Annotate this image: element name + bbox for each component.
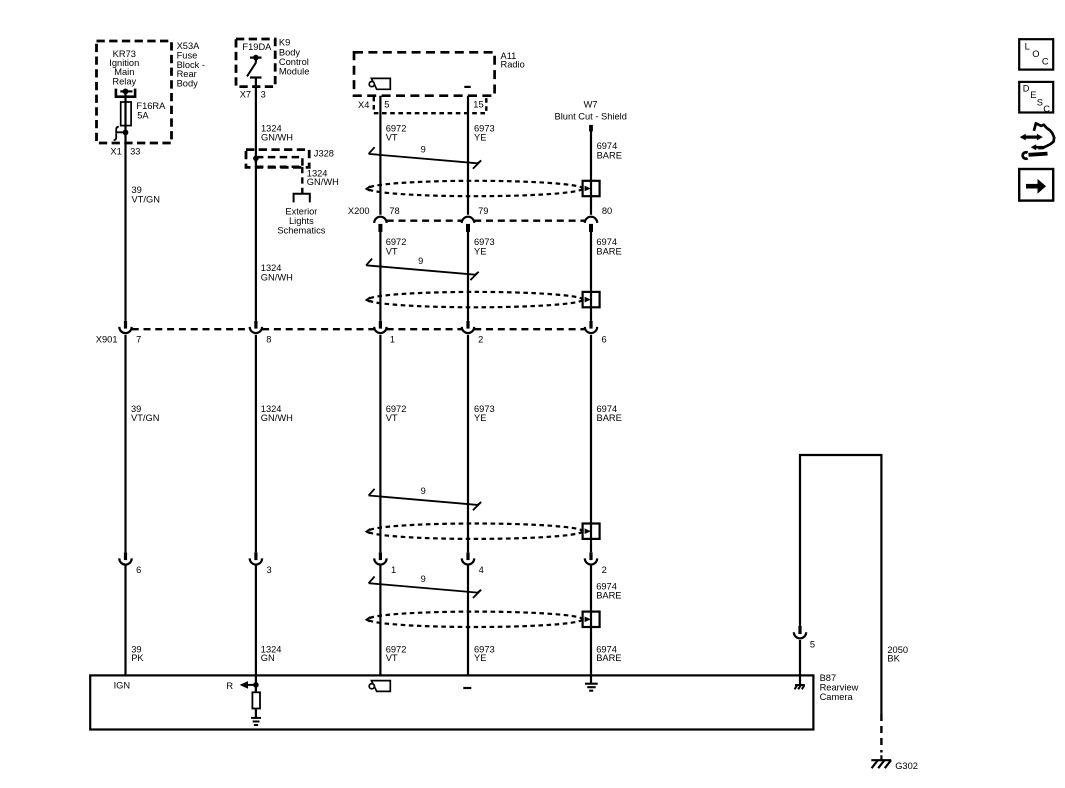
switch blade [247, 63, 256, 77]
icon DESC box [1019, 82, 1053, 113]
svg-text:BARE: BARE [597, 150, 622, 160]
svg-text:Blunt Cut - Shield: Blunt Cut - Shield [555, 111, 627, 121]
svg-text:C: C [1043, 104, 1050, 114]
shield tap box 4 [583, 612, 600, 627]
wire 39 PK (inline conn to camera) [124, 565, 126, 676]
relay contact bracket [116, 89, 135, 97]
svg-text:VT: VT [386, 413, 398, 423]
R output arrow [247, 684, 256, 686]
twisted pair mark 3 [369, 489, 482, 511]
wire 6972 (X4-5 to X200) [379, 96, 381, 215]
svg-text:YE: YE [474, 413, 486, 423]
minus terminal (in radio) [464, 86, 470, 88]
resistor (camera internal) [252, 692, 260, 708]
shield ellipse 4 [368, 612, 583, 627]
svg-text:1: 1 [391, 565, 396, 575]
svg-text:80: 80 [602, 206, 612, 216]
label B87 Rearview Camera [820, 673, 859, 702]
svg-text:GN/WH: GN/WH [307, 177, 339, 187]
shield ellipse 3 [368, 524, 583, 539]
svg-text:9: 9 [421, 574, 426, 584]
blunt cut stub [589, 125, 593, 131]
svg-text:Camera: Camera [820, 692, 854, 702]
svg-text:E: E [1030, 90, 1036, 100]
label K9 Body Control Module [279, 38, 310, 77]
connector pin 5 [798, 626, 801, 634]
svg-text:15: 15 [473, 100, 483, 110]
svg-text:GN/WH: GN/WH [261, 272, 293, 282]
node splice junction [253, 156, 259, 162]
svg-text:X4: X4 [358, 100, 369, 110]
label Exterior Lights Schematics [277, 207, 325, 236]
svg-text:Lights: Lights [289, 216, 314, 226]
radio A11 dashed box [354, 52, 495, 95]
svg-text:W7: W7 [584, 100, 598, 110]
wire into resistor [255, 675, 257, 692]
svg-text:Module: Module [279, 67, 310, 77]
connector X4 dashed strip [374, 97, 487, 113]
wire 6974 into ground [590, 675, 592, 683]
svg-text:Relay: Relay [112, 76, 136, 86]
svg-text:G302: G302 [895, 761, 918, 771]
connector inline pin 2 at 591 [589, 552, 592, 560]
svg-text:Body: Body [279, 47, 301, 57]
wire 39 VT/GN (X901 to inline conn) [124, 335, 126, 553]
svg-text:78: 78 [389, 206, 399, 216]
svg-text:O: O [1032, 49, 1039, 59]
svg-text:K9: K9 [279, 38, 290, 48]
fuse F19DA dashed box (K9 BCM) [236, 39, 275, 87]
camera icon (in B87) [371, 681, 390, 692]
wire 6974 BARE (inline conn to camera) [590, 565, 592, 676]
connector X200 socket at 591 [585, 217, 597, 223]
wire shield drain (camera pin5 up and over to G302) [800, 455, 881, 714]
twisted pair mark 1 [369, 147, 482, 169]
wire 6974 (X200 to X901) [590, 229, 592, 321]
svg-text:VT: VT [386, 653, 398, 663]
wire dashed branch to exterior lights [301, 167, 303, 194]
connector X901 socket at 591 [589, 321, 592, 329]
svg-text:GN/WH: GN/WH [261, 413, 293, 423]
shield ellipse 1 [368, 181, 583, 196]
svg-text:33: 33 [130, 147, 140, 157]
wire 6973 YE (X901 to inline conn) [467, 335, 469, 553]
wire 6974 BARE (X901 to inline conn) [590, 335, 592, 553]
wire (BCM to X901) [255, 78, 257, 321]
svg-text:9: 9 [421, 145, 426, 155]
wire 1324 GN (inline conn to camera) [255, 565, 257, 676]
component B87 rearview camera box [90, 675, 813, 729]
connector X901 socket at 468 [466, 321, 469, 329]
label KR73 Ignition Main Relay [109, 49, 139, 86]
svg-text:8: 8 [266, 334, 271, 344]
chassis ground (shield in B87) [799, 675, 801, 684]
svg-text:YE: YE [474, 132, 486, 142]
wire 6974 upper [590, 131, 592, 215]
svg-text:VT: VT [386, 132, 398, 142]
svg-text:2: 2 [602, 565, 607, 575]
svg-text:4: 4 [479, 565, 484, 575]
twisted pair mark 2 [366, 259, 479, 281]
svg-text:YE: YE [474, 653, 486, 663]
wire 1324 GN/WH (X901 to inline conn) [255, 335, 257, 553]
node (fuse output junction) [123, 130, 129, 136]
svg-text:2: 2 [478, 334, 483, 344]
svg-text:B87: B87 [820, 673, 837, 683]
svg-text:S: S [1037, 98, 1043, 108]
ground (camera internal) [251, 718, 261, 725]
svg-text:F19DA: F19DA [242, 42, 272, 52]
svg-text:79: 79 [478, 206, 488, 216]
svg-text:X200: X200 [348, 206, 370, 216]
junction hooks below fuse [116, 127, 123, 133]
svg-text:BARE: BARE [596, 246, 621, 256]
label A11 Radio [501, 51, 525, 70]
splice J328 inner dashed box [256, 157, 303, 167]
connector X901 socket at 380.4 [379, 321, 382, 329]
svg-text:PK: PK [131, 653, 144, 663]
fuse F16RA [121, 102, 131, 126]
wire 2050 dashed to G302 [880, 714, 882, 753]
connector X901 socket at 255.9 [254, 321, 257, 329]
svg-text:9: 9 [418, 256, 423, 266]
svg-text:J328: J328 [314, 148, 334, 158]
minus terminal (in B87) [463, 687, 471, 689]
svg-text:VT/GN: VT/GN [132, 194, 160, 204]
icon arrow box [1019, 169, 1053, 201]
svg-text:GN: GN [261, 653, 275, 663]
svg-text:BK: BK [887, 654, 900, 664]
svg-text:7: 7 [136, 334, 141, 344]
camera icon (in radio) [371, 78, 390, 89]
ground G302 symbol [871, 755, 891, 768]
wire 6972 VT (inline conn to camera) [379, 565, 381, 676]
svg-text:5: 5 [384, 100, 389, 110]
wire pin5 to camera box [799, 640, 801, 675]
connector inline pin 3 at 255.9 [254, 552, 257, 560]
icon wrench/navigate [1020, 123, 1054, 158]
svg-text:GN/WH: GN/WH [261, 132, 293, 142]
svg-text:6: 6 [602, 334, 607, 344]
node R junction [253, 682, 259, 688]
svg-text:D: D [1023, 84, 1030, 94]
label X53A Fuse Block - Rear Body [177, 41, 205, 89]
svg-text:5A: 5A [137, 111, 149, 121]
shield tap box 2 [583, 292, 600, 307]
wire 6973 (X4-15 to X200) [467, 96, 469, 215]
twisted pair mark 4 [369, 577, 482, 599]
svg-text:Radio: Radio [501, 60, 525, 70]
off-page bracket [294, 194, 310, 203]
ground (signal ground in B87) [585, 684, 598, 691]
svg-text:C: C [1042, 57, 1049, 67]
wire 6972 VT (X901 to inline conn) [379, 335, 381, 553]
svg-text:3: 3 [261, 89, 266, 99]
svg-text:1: 1 [390, 334, 395, 344]
icon LOC box [1019, 39, 1053, 69]
svg-text:X1: X1 [110, 147, 121, 157]
svg-text:YE: YE [474, 246, 486, 256]
svg-text:6: 6 [136, 565, 141, 575]
svg-text:9: 9 [421, 486, 426, 496]
svg-text:BARE: BARE [596, 653, 621, 663]
svg-text:L: L [1025, 41, 1030, 51]
wire 6973 YE (inline conn to camera) [467, 565, 469, 676]
connector X200 socket at 380.4 [374, 217, 386, 223]
connector X200 dashed line [387, 219, 462, 221]
svg-text:Exterior: Exterior [285, 207, 317, 217]
svg-text:BARE: BARE [597, 413, 622, 423]
connector inline pin 6 at 125.5 [124, 552, 127, 560]
splice J328 outer dashed box [246, 150, 309, 168]
svg-text:Body: Body [177, 79, 199, 89]
svg-text:R: R [226, 681, 233, 691]
wire (relay to X901 through fuse) [124, 91, 126, 321]
connector X901 dashed line [132, 328, 250, 330]
svg-text:5: 5 [810, 640, 815, 650]
svg-text:F16RA: F16RA [136, 101, 166, 111]
svg-text:X901: X901 [96, 334, 118, 344]
shield tap box 3 [583, 524, 600, 539]
svg-text:VT: VT [386, 246, 398, 256]
svg-text:Control: Control [279, 57, 309, 67]
svg-text:VT/GN: VT/GN [131, 413, 159, 423]
connector X200 socket at 468 [462, 217, 474, 223]
wire 6973 (X200 to X901) [467, 229, 469, 321]
switch contact (in F19DA) [250, 56, 262, 58]
svg-text:3: 3 [267, 565, 272, 575]
shield ellipse 2 [368, 292, 583, 307]
svg-text:Schematics: Schematics [277, 226, 325, 236]
wire 6972 (X200 to X901) [379, 229, 381, 321]
connector inline pin 1 at 380.4 [379, 552, 382, 560]
svg-text:BARE: BARE [596, 590, 621, 600]
connector X901 socket at 125.5 [124, 321, 127, 329]
relay KR73 dashed box (X53A fuse block) [97, 41, 172, 143]
connector inline pin 4 at 468 [466, 552, 469, 560]
shield tap box 1 [583, 181, 600, 196]
svg-text:IGN: IGN [114, 680, 131, 690]
wire resistor to ground [255, 709, 257, 718]
svg-text:X7: X7 [240, 89, 251, 99]
